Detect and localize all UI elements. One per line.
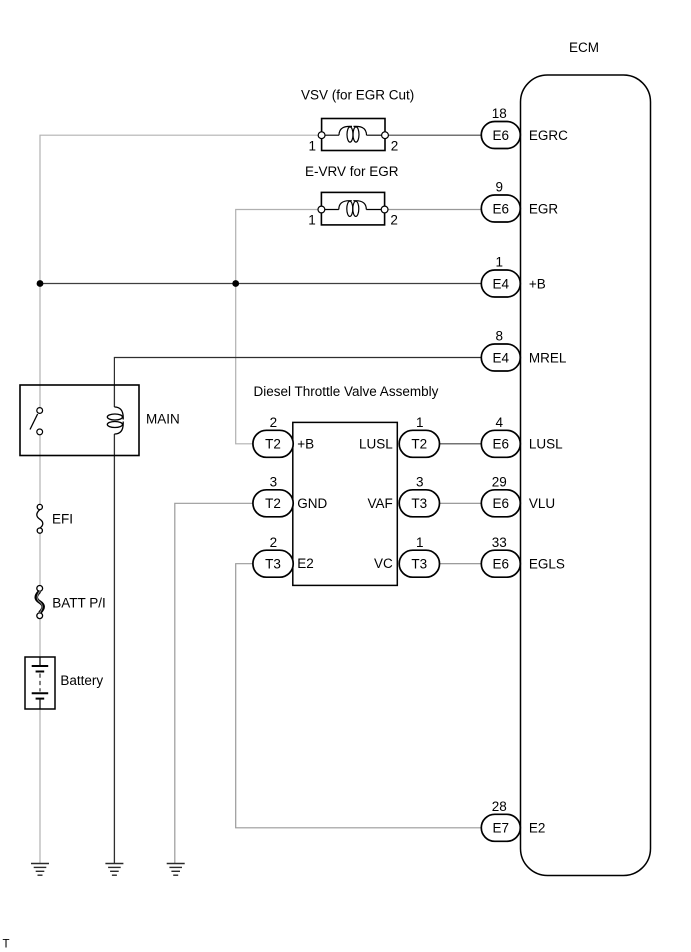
svg-text:29: 29 <box>492 475 507 490</box>
connector T3 pin1 (VC) <box>399 535 439 577</box>
svg-text:EGLS: EGLS <box>529 557 565 572</box>
svg-text:VAF: VAF <box>368 496 393 511</box>
svg-text:4: 4 <box>496 415 504 430</box>
svg-text:1: 1 <box>416 415 424 430</box>
svg-text:E6: E6 <box>493 437 510 452</box>
wire MREL from relay coil to ECM E4-8 <box>114 358 481 386</box>
ECM box <box>521 75 651 876</box>
ground (throttle GND) <box>167 864 185 876</box>
svg-text:E6: E6 <box>493 557 510 572</box>
relay MAIN box <box>20 385 139 456</box>
svg-text:1: 1 <box>308 138 316 153</box>
wire from relay switch lower terminal down to EFI fuse <box>39 435 41 505</box>
svg-text:T: T <box>3 939 10 951</box>
svg-text:+B: +B <box>529 276 546 291</box>
svg-text:+B: +B <box>297 436 314 451</box>
wire battery to ground <box>39 709 41 864</box>
connector T3 pin2 (E2) <box>253 535 293 577</box>
svg-text:VLU: VLU <box>529 496 555 511</box>
svg-text:VC: VC <box>374 556 393 571</box>
E-VRV coil <box>321 201 384 217</box>
connector T2 pin1 (LUSL) <box>399 415 439 457</box>
wire relay coil top inside relay <box>113 385 115 407</box>
ECM connector E7 pin28 (E2) <box>481 799 545 841</box>
E-VRV terminal 2 <box>381 206 388 213</box>
svg-text:E7: E7 <box>493 821 510 836</box>
wire BATT P/I to battery <box>39 618 41 657</box>
svg-text:T2: T2 <box>411 437 427 452</box>
svg-text:Battery: Battery <box>60 673 103 688</box>
ECM connector E6 pin33 (EGLS) <box>481 535 565 577</box>
E-VRV solenoid box <box>321 192 384 225</box>
svg-text:EGRC: EGRC <box>529 128 568 143</box>
fuse EFI <box>37 504 43 533</box>
svg-text:E4: E4 <box>493 276 510 291</box>
fusible link BATT P/I <box>36 586 43 619</box>
ECM connector E6 pin29 (VLU) <box>481 475 555 517</box>
wire E-VRV pin1 left to vertical <box>236 210 322 444</box>
svg-text:MAIN: MAIN <box>146 412 180 427</box>
wire relay coil bottom to ground <box>113 434 115 864</box>
svg-text:ECM: ECM <box>569 40 599 55</box>
svg-text:E-VRV for EGR: E-VRV for EGR <box>305 164 399 179</box>
throttle valve assembly box <box>293 422 398 585</box>
svg-text:E6: E6 <box>493 201 510 216</box>
svg-text:2: 2 <box>391 138 399 153</box>
svg-text:MREL: MREL <box>529 350 567 365</box>
svg-text:BATT P/I: BATT P/I <box>52 596 106 611</box>
relay switch upper contact <box>37 408 43 414</box>
svg-text:E6: E6 <box>493 496 510 511</box>
svg-text:1: 1 <box>308 212 316 227</box>
svg-text:T2: T2 <box>265 437 281 452</box>
wire E-VRV pin2 to ECM EGR <box>385 209 482 211</box>
svg-text:T3: T3 <box>265 557 281 572</box>
svg-text:E2: E2 <box>529 821 546 836</box>
svg-text:3: 3 <box>416 475 424 490</box>
relay switch lower contact <box>37 429 43 435</box>
wire EFI fuse to BATT P/I fusible link <box>39 533 41 586</box>
svg-text:E6: E6 <box>493 128 510 143</box>
wire +B bus to ECM E4-1 <box>40 283 482 285</box>
svg-text:E4: E4 <box>493 350 510 365</box>
junction node at x236 on +B bus <box>232 280 239 287</box>
svg-text:GND: GND <box>297 496 327 511</box>
ECM connector E4 pin1 (+B) <box>481 255 545 297</box>
wire throttle GND to ground <box>175 503 253 863</box>
connector T3 pin3 (VAF) <box>399 475 439 517</box>
ground (battery) <box>31 864 49 876</box>
VSV terminal 2 <box>382 132 389 139</box>
svg-text:VSV (for EGR Cut): VSV (for EGR Cut) <box>301 88 414 103</box>
svg-text:LUSL: LUSL <box>529 437 563 452</box>
svg-text:T3: T3 <box>411 557 427 572</box>
svg-text:2: 2 <box>390 212 398 227</box>
wire throttle VC to ECM E6-33 EGLS <box>439 563 481 565</box>
ECM connector E6 pin18 (EGRC) <box>481 106 568 148</box>
ECM connector E4 pin8 (MREL) <box>481 329 567 371</box>
connector T2 pin2 (+B) <box>253 415 293 457</box>
svg-text:9: 9 <box>496 180 504 195</box>
svg-text:2: 2 <box>270 415 278 430</box>
svg-text:18: 18 <box>492 106 507 121</box>
ECM connector E6 pin9 (EGR) <box>481 180 558 222</box>
relay switch blade <box>30 414 38 430</box>
svg-text:E2: E2 <box>297 556 314 571</box>
svg-text:33: 33 <box>492 535 507 550</box>
svg-text:1: 1 <box>416 535 424 550</box>
svg-text:2: 2 <box>270 535 278 550</box>
svg-text:28: 28 <box>492 799 507 814</box>
wire throttle VAF to ECM E6-29 VLU <box>439 502 481 504</box>
svg-text:8: 8 <box>496 329 504 344</box>
wire from VSV pin1 left and down to relay switch (net B+) <box>40 135 322 407</box>
ground (relay coil) <box>105 864 123 876</box>
wire VSV pin2 to ECM EGRC <box>385 134 482 136</box>
wire throttle LUSL to ECM E6-4 <box>439 443 481 445</box>
connector T2 pin3 (GND) <box>253 475 293 517</box>
VSV coil <box>322 126 385 142</box>
ECM connector E6 pin4 (LUSL) <box>481 415 563 457</box>
wire throttle E2 to ECM E7-28 <box>236 564 482 828</box>
VSV solenoid box <box>322 119 385 151</box>
svg-text:3: 3 <box>270 475 278 490</box>
svg-text:1: 1 <box>496 255 504 270</box>
svg-text:T2: T2 <box>265 496 281 511</box>
E-VRV terminal 1 <box>318 206 325 213</box>
relay coil <box>107 407 123 434</box>
svg-text:T3: T3 <box>411 496 427 511</box>
svg-text:EFI: EFI <box>52 512 73 527</box>
svg-text:Diesel Throttle Valve Assembly: Diesel Throttle Valve Assembly <box>254 384 439 399</box>
VSV terminal 1 <box>318 132 325 139</box>
battery box <box>25 657 55 709</box>
svg-text:LUSL: LUSL <box>359 436 393 451</box>
svg-text:EGR: EGR <box>529 201 559 216</box>
junction node at x40 on +B bus <box>37 280 44 287</box>
battery symbol <box>32 657 49 709</box>
